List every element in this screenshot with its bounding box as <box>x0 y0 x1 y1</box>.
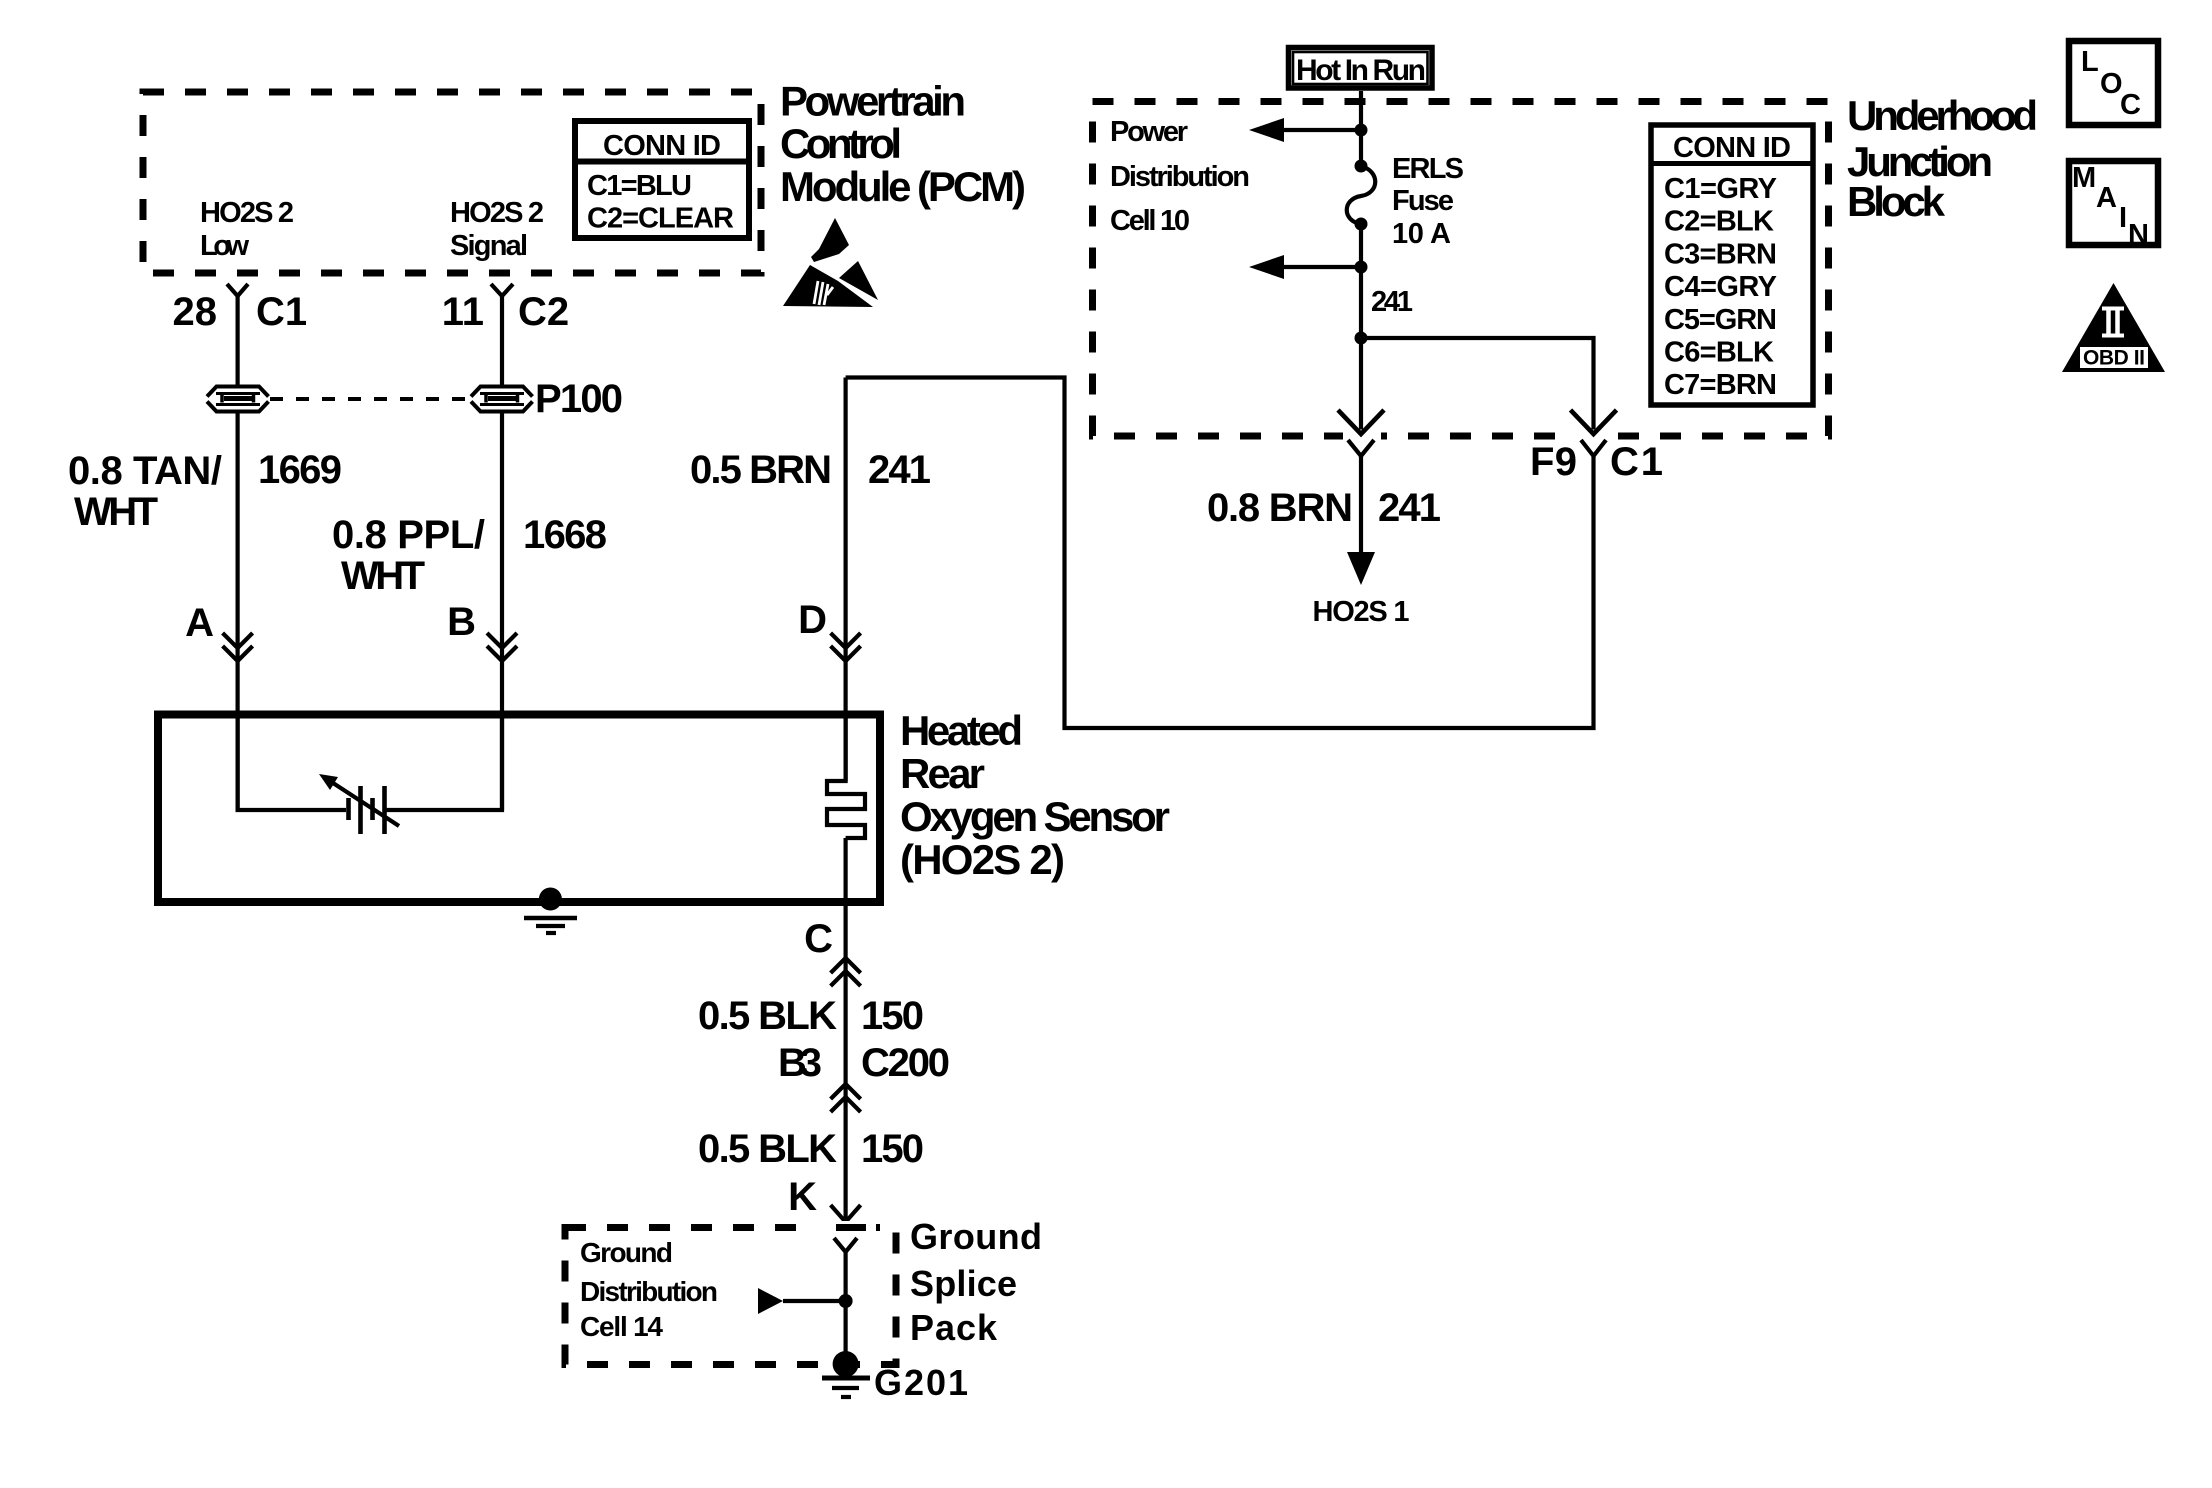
svg-text:0.5 BRN: 0.5 BRN <box>690 448 832 492</box>
svg-text:Powertrain: Powertrain <box>780 78 966 125</box>
svg-text:C2=BLK: C2=BLK <box>1664 206 1774 238</box>
svg-text:B3: B3 <box>778 1041 822 1085</box>
svg-text:Block: Block <box>1847 178 1946 225</box>
svg-text:Module (PCM): Module (PCM) <box>780 163 1026 210</box>
svg-text:HO2S 2: HO2S 2 <box>200 197 294 229</box>
arrowhead to HO2S1 <box>1347 552 1375 585</box>
CONN ID table (PCM) <box>575 121 749 238</box>
svg-text:C1: C1 <box>1610 440 1663 484</box>
svg-text:WHT: WHT <box>341 554 425 598</box>
svg-text:L: L <box>2081 46 2099 78</box>
connector Y C2 <box>491 284 513 296</box>
junction node <box>1355 124 1368 137</box>
svg-text:C1: C1 <box>256 290 307 334</box>
svg-text:Cell 10: Cell 10 <box>1110 205 1190 237</box>
svg-text:0.8 BRN: 0.8 BRN <box>1207 486 1353 530</box>
svg-text:A: A <box>185 601 214 645</box>
svg-text:Distribution: Distribution <box>580 1276 718 1307</box>
heater element <box>827 718 865 838</box>
wire 241 branch right <box>1361 338 1594 430</box>
svg-text:Rear: Rear <box>900 750 985 797</box>
connector Y C1 <box>227 284 248 296</box>
svg-text:C2: C2 <box>518 290 569 334</box>
svg-text:HO2S 1: HO2S 1 <box>1313 596 1410 628</box>
Powertrain Control Module (PCM) dashed box <box>143 92 761 273</box>
Underhood Junction Block dashed box <box>1093 102 1829 437</box>
connector Y F9 C1 <box>1581 440 1606 456</box>
wire sensor ground down <box>843 838 847 1220</box>
Heated Rear Oxygen Sensor box <box>158 715 880 903</box>
svg-text:C4=GRY: C4=GRY <box>1664 271 1777 303</box>
variable element arrow <box>333 783 399 826</box>
ground G201 node <box>833 1351 859 1377</box>
svg-text:Splice: Splice <box>910 1263 1017 1304</box>
svg-text:Heated: Heated <box>900 707 1023 754</box>
LOC legend box <box>2069 41 2158 125</box>
dashed link wire P100 <box>270 397 472 401</box>
junction node splice <box>839 1294 853 1308</box>
internal ground symbol <box>524 918 577 933</box>
svg-text:HO2S 2: HO2S 2 <box>450 197 544 229</box>
svg-text:C7=BRN: C7=BRN <box>1664 369 1777 401</box>
svg-text:1668: 1668 <box>523 513 607 557</box>
svg-text:Fuse: Fuse <box>1392 185 1454 217</box>
svg-text:150: 150 <box>861 994 924 1038</box>
svg-text:K: K <box>788 1175 817 1219</box>
wire Hot In Run feed <box>1359 91 1363 166</box>
svg-text:CONN ID: CONN ID <box>1673 132 1791 164</box>
wire HO2S2 Low (pin28 to sensor) <box>236 296 240 810</box>
svg-text:C3=BRN: C3=BRN <box>1664 238 1777 270</box>
junction node lower arrow <box>1355 261 1368 274</box>
svg-text:Signal: Signal <box>450 230 528 262</box>
svg-text:ERLS: ERLS <box>1392 153 1464 185</box>
white gap in dashed edge at F9 exit <box>1576 430 1613 444</box>
svg-text:C: C <box>2120 89 2141 121</box>
svg-text:OBD II: OBD II <box>2083 347 2145 370</box>
chevron D <box>831 633 861 648</box>
svg-text:Ground: Ground <box>580 1237 673 1268</box>
chevron C (up) <box>831 958 861 973</box>
svg-text:P100: P100 <box>535 377 623 421</box>
exit chevron F9 <box>1571 410 1617 434</box>
variable sense element bars <box>349 786 385 834</box>
svg-text:Distribution: Distribution <box>1110 161 1250 193</box>
wire heater feed down to sensor <box>843 378 847 782</box>
svg-text:F9: F9 <box>1530 440 1577 484</box>
svg-text:Hot In Run: Hot In Run <box>1296 54 1426 87</box>
chevron C200 (up) <box>831 1084 861 1099</box>
svg-text:0.5 BLK: 0.5 BLK <box>698 994 837 1038</box>
svg-text:11: 11 <box>442 290 484 334</box>
white gap for wire in dashed top edge <box>816 1221 876 1234</box>
junction node 241 <box>1355 332 1368 345</box>
svg-text:C6=BLK: C6=BLK <box>1664 337 1774 369</box>
svg-text:Pack: Pack <box>910 1307 998 1348</box>
wire HO2S2 Signal (pin11 to sensor) <box>500 296 504 810</box>
svg-text:C2=CLEAR: C2=CLEAR <box>587 203 734 235</box>
chevron A <box>223 633 253 648</box>
svg-text:Control: Control <box>780 120 902 167</box>
svg-text:WHT: WHT <box>74 490 158 534</box>
svg-text:Low: Low <box>200 230 249 262</box>
svg-text:A: A <box>2096 182 2117 214</box>
MAIN legend box <box>2069 161 2158 251</box>
svg-text:CONN ID: CONN ID <box>603 130 721 162</box>
svg-text:Cell 14: Cell 14 <box>580 1311 663 1342</box>
internal wire left <box>238 718 346 810</box>
Hot In Run box <box>1289 48 1433 89</box>
svg-text:N: N <box>2128 219 2149 251</box>
svg-text:1669: 1669 <box>258 448 342 492</box>
svg-text:241: 241 <box>1371 286 1413 318</box>
wire into splice pack <box>843 1252 847 1364</box>
svg-text:B: B <box>447 600 476 644</box>
svg-text:C200: C200 <box>861 1041 950 1085</box>
svg-text:Oxygen Sensor: Oxygen Sensor <box>900 793 1170 840</box>
exit chevron HO2S1 <box>1338 410 1384 434</box>
CONN ID table (junction block) <box>1651 125 1813 405</box>
svg-text:150: 150 <box>861 1127 924 1171</box>
wire below fuse <box>1359 224 1363 430</box>
svg-text:C: C <box>804 917 833 961</box>
svg-text:Ground: Ground <box>910 1216 1042 1257</box>
ground G201 symbol <box>822 1378 870 1397</box>
svg-text:0.5 BLK: 0.5 BLK <box>698 1127 837 1171</box>
ESD sensitive symbol <box>783 218 878 307</box>
svg-text:Underhood: Underhood <box>1847 92 2038 139</box>
svg-text:G201: G201 <box>874 1362 968 1403</box>
dash segment under splice connector <box>836 1224 866 1231</box>
fuse ERLS 10A <box>1347 160 1376 231</box>
internal ground node <box>539 888 562 911</box>
svg-text:10 A: 10 A <box>1392 218 1451 250</box>
svg-text:(HO2S 2): (HO2S 2) <box>900 836 1065 883</box>
branch arrow ground distribution <box>758 1288 783 1314</box>
chevron K (down) <box>831 1205 861 1222</box>
pass-through connector P100 right <box>471 386 533 412</box>
Ground Distribution dashed box <box>565 1228 896 1365</box>
svg-text:Power: Power <box>1110 116 1188 148</box>
internal wire right <box>386 718 502 810</box>
connector Y below HO2S1 exit <box>1348 440 1374 456</box>
connector Y ground splice <box>834 1238 857 1252</box>
branch arrow left upper <box>1284 128 1361 132</box>
svg-text:241: 241 <box>1378 486 1441 530</box>
branch arrow left lower <box>1284 265 1361 269</box>
pass-through connector P100 left <box>207 386 269 412</box>
svg-text:C1=BLU: C1=BLU <box>587 170 692 202</box>
svg-text:0.8 PPL/: 0.8 PPL/ <box>332 513 485 557</box>
svg-text:241: 241 <box>868 448 931 492</box>
wire to HO2S1 <box>1359 456 1363 554</box>
svg-text:D: D <box>798 598 827 642</box>
svg-text:C1=GRY: C1=GRY <box>1664 173 1777 205</box>
OBD II triangle badge <box>2062 283 2165 372</box>
white gap in dashed edge at HO2S1 exit <box>1343 430 1381 444</box>
svg-text:I: I <box>2119 202 2127 234</box>
svg-text:M: M <box>2072 162 2096 194</box>
svg-text:C5=GRN: C5=GRN <box>1664 304 1777 336</box>
chevron B <box>487 633 517 648</box>
svg-text:0.8 TAN/: 0.8 TAN/ <box>68 449 222 493</box>
svg-text:28: 28 <box>173 290 218 334</box>
wire F9 C1 to heater branch <box>846 378 1594 729</box>
